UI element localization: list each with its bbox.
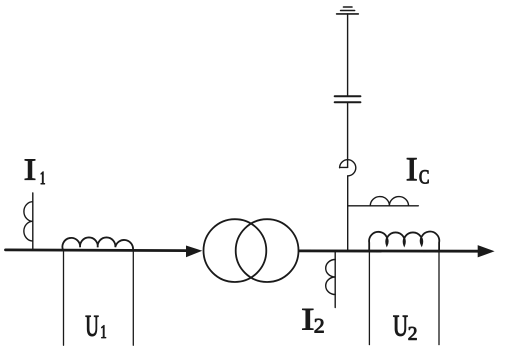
I1 branch wire: [32, 193, 34, 250]
I1 coil (CT): [24, 202, 33, 241]
label I1: [25, 160, 45, 185]
wire IC tap: [348, 205, 418, 207]
U2 bracket left wire: [368, 252, 370, 345]
capacitor C: [335, 96, 361, 102]
coil on IC line: [370, 197, 408, 206]
ground: [337, 7, 359, 14]
label IC: [407, 158, 429, 183]
transformer winding 2: [236, 219, 299, 282]
coil winding U2 on bus: [369, 232, 439, 251]
coil winding U1 on bus: [62, 237, 133, 250]
U1 bracket left wire: [63, 252, 65, 346]
bus right segment: [299, 249, 478, 252]
label U1: [86, 316, 106, 338]
wire capacitor to loop: [347, 103, 349, 167]
transformer winding 1: [204, 219, 267, 282]
single-turn loop coil: [340, 160, 356, 176]
I2 coil (CT): [326, 260, 336, 295]
label I2: [302, 309, 323, 333]
arrowhead mid bus: [186, 246, 202, 258]
label U2: [393, 316, 416, 340]
arrowhead bus end: [478, 245, 495, 257]
wire ground to capacitor: [347, 14, 349, 95]
I2 branch wire: [334, 251, 336, 308]
U1 bracket right wire: [132, 252, 134, 346]
U2 bracket right wire: [438, 252, 440, 345]
bus left segment: [6, 248, 188, 252]
wire loop to bus: [347, 176, 349, 251]
